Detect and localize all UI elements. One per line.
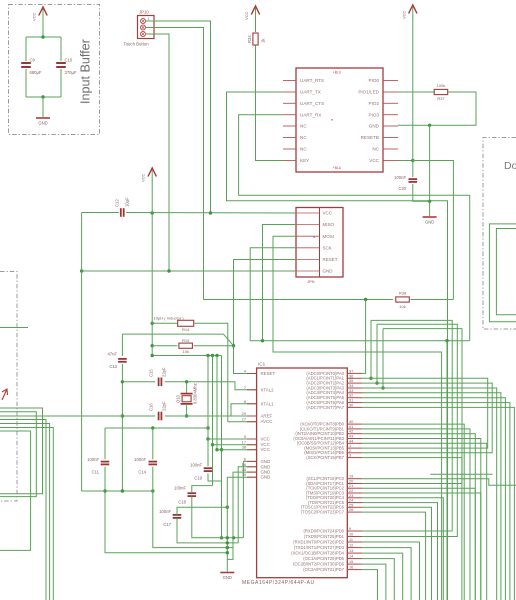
svg-text:(MOSI/PCINT13)PB5: (MOSI/PCINT13)PB5 (304, 445, 344, 450)
pin PIO0 (right stub) (383, 80, 398, 82)
junction GND collector y=542.9 (226, 541, 229, 544)
pin circle JP10-1 (141, 19, 146, 24)
junction VCC row 38 (215, 448, 218, 451)
wire PA7 down right (362, 407, 514, 600)
svg-text:33: 33 (349, 388, 353, 393)
wire PA3 long row down (362, 388, 497, 600)
pin PIO2 (right stub) (383, 102, 398, 104)
svg-text:GND: GND (261, 459, 271, 464)
wire VCC to C20 (412, 161, 414, 177)
svg-text:▾: ▾ (331, 118, 333, 122)
pin UART_CTS (left stub) (283, 102, 296, 104)
junction R15 left / VCC (151, 344, 154, 347)
pin 27 AVCC (IC left) (247, 421, 257, 423)
svg-text:R14: R14 (182, 327, 190, 332)
svg-text:RESET: RESET (261, 371, 276, 376)
wire PC5 down (362, 503, 438, 600)
svg-text:(INT2/AIN0/PCINT10)PB2: (INT2/AIN0/PCINT10)PB2 (295, 431, 344, 436)
svg-text:(OC2B/INT2/PCINT30)PD6: (OC2B/INT2/PCINT30)PD6 (293, 562, 345, 567)
wire GND pin 39 (227, 476, 256, 478)
pin UART_TX (left stub) (283, 91, 296, 93)
junction MISO joins (261, 339, 264, 342)
svg-text:(ADC7/PCINT7)PA7: (ADC7/PCINT7)PA7 (306, 405, 344, 410)
svg-text:3: 3 (349, 453, 351, 458)
wire VCC over to R38 line (413, 161, 454, 300)
resistor R14 10uH inductor (178, 320, 194, 326)
svg-text:(TXD0/PCINT25)PD1: (TXD0/PCINT25)PD1 (304, 534, 345, 539)
wire drop to PA1 (370, 320, 372, 378)
pin SCK (ISP) (296, 247, 320, 249)
pin 6 GND (IC left) (247, 460, 257, 462)
svg-text:VCC: VCC (323, 211, 333, 216)
svg-text:AVCC: AVCC (261, 419, 273, 424)
svg-text:100nF: 100nF (87, 457, 99, 462)
svg-text:(ADC3/PCINT3)PA3: (ADC3/PCINT3)PA3 (306, 385, 344, 390)
wire VCC to R34 (255, 18, 257, 32)
svg-text:Touch Button: Touch Button (124, 42, 150, 47)
wire PC0 jog to right edge (362, 479, 516, 486)
capacitor C14 100nF (149, 461, 158, 463)
svg-text:UART_RX: UART_RX (300, 112, 321, 117)
wire PC4 down (362, 498, 443, 600)
resistor R34 1k (253, 33, 258, 45)
svg-text:(CLKO/T1/PCINT9)PB1: (CLKO/T1/PCINT9)PB1 (300, 426, 345, 431)
svg-text:100k: 100k (437, 83, 446, 88)
pin 21 (TCK/PCINT18)PC2 (IC right) (347, 487, 362, 489)
svg-text:25: 25 (349, 502, 353, 507)
pin 15 (OC2B/INT2/PCINT30)PD6 (IC right) (347, 563, 362, 565)
svg-text:(MISO/PCINT14)PB6: (MISO/PCINT14)PB6 (304, 450, 344, 455)
junction RESET net (232, 344, 235, 347)
svg-text:NC: NC (300, 135, 307, 140)
svg-text:VCC: VCC (244, 11, 249, 20)
svg-text:(TCK/PCINT18)PC2: (TCK/PCINT18)PC2 (306, 486, 344, 491)
pin 8 XTAL1 (IC left) (247, 403, 257, 405)
power symbol VCC above R34 (255, 8, 257, 19)
junction GND pin net (428, 124, 431, 127)
svg-text:8: 8 (244, 399, 246, 404)
svg-text:16: 16 (242, 462, 246, 467)
junction VCC rail / VCC arrow mid (151, 211, 154, 214)
wire VCC arrow mid down (151, 180, 153, 213)
wire drop to PA0 (362, 300, 366, 374)
pin 16 (OC2A/PCINT31)PD7 (IC right) (347, 569, 362, 571)
module U1 bluetooth (UART/PIO box) (296, 68, 383, 172)
pin 32 (ADC5/PCINT5)PA5 (IC right) (347, 397, 362, 399)
svg-text:22: 22 (349, 488, 353, 493)
svg-text:MOSI: MOSI (323, 234, 335, 239)
svg-text:(SCL/PCINT16)PC0: (SCL/PCINT16)PC0 (307, 476, 345, 481)
wire PA5 down right (362, 398, 505, 600)
svg-text:10k: 10k (182, 349, 188, 354)
wire PC7 down (362, 512, 426, 600)
pin 10 (TXD0/PCINT25)PD1 (IC right) (347, 536, 362, 538)
svg-text:(OC0A/AIN1/PCINT11)PB3: (OC0A/AIN1/PCINT11)PB3 (293, 436, 344, 441)
svg-text:(ADC4/PCINT4)PA4: (ADC4/PCINT4)PA4 (306, 390, 344, 395)
svg-text:15: 15 (349, 559, 353, 564)
svg-text:NC: NC (372, 147, 379, 152)
pin 35 (ADC2/PCINT2)PA2 (IC right) (347, 382, 362, 384)
pin 25 (TOSC1/PCINT22)PC6 (IC right) (347, 506, 362, 508)
pin KEY (left stub) (283, 160, 296, 162)
junction GND collector y=537.8 (226, 536, 229, 539)
resistor R37 100k (434, 89, 448, 94)
wire R15 right lead (194, 345, 234, 347)
capacitor C10 370uF (56, 62, 66, 64)
svg-text:13: 13 (349, 548, 353, 553)
svg-text:R15: R15 (182, 338, 190, 343)
svg-text:36: 36 (349, 373, 353, 378)
wire net UART_RX (239, 115, 470, 341)
svg-text:VCC: VCC (141, 173, 146, 182)
pin MISO (ISP) (296, 224, 320, 226)
svg-text:35: 35 (349, 378, 353, 383)
wire cap-top rail (105, 427, 208, 429)
svg-text:(TOSC1/PCINT22)PC6: (TOSC1/PCINT22)PC6 (301, 505, 345, 510)
svg-text:VCC: VCC (261, 447, 270, 452)
svg-text:GND: GND (261, 475, 271, 480)
junction VCC rail / JP10 pin1 (209, 211, 212, 214)
svg-text:31: 31 (349, 398, 353, 403)
svg-text:22pF: 22pF (162, 401, 167, 411)
svg-text:10µH ( Inductor ): 10µH ( Inductor ) (154, 315, 185, 320)
pin 22 (TMS/PCINT19)PC3 (IC right) (347, 492, 362, 494)
junction C20 bottom / GND (428, 200, 431, 203)
junction input buffer bottom (41, 95, 44, 98)
junction GND rail / left GND vertical (80, 269, 83, 272)
pin circle JP10-3 (141, 32, 146, 37)
ground (bottom) (220, 572, 234, 574)
resistor R38 10k (396, 297, 410, 302)
svg-text:43: 43 (349, 434, 353, 439)
wire PB4 down right (362, 443, 487, 600)
pin 12 (TXD1/INT1/PCINT27)PD3 (IC right) (347, 547, 362, 549)
wire PB2 down right (362, 434, 475, 600)
svg-text:▸: ▸ (314, 235, 316, 239)
junction VCC / C20 (411, 159, 414, 162)
wire PIO1 to R37 (398, 91, 434, 93)
junction rail A (232, 536, 235, 539)
junction R14 left / VCC (151, 322, 154, 325)
wire GND collector vertical (226, 477, 228, 571)
wire crystal top lead (186, 382, 188, 393)
wire C9 leads (25, 37, 27, 61)
wire R15 left lead (152, 345, 177, 347)
svg-text:10k: 10k (399, 304, 405, 309)
svg-text:+BLU: +BLU (333, 71, 342, 75)
wire AVCC line from R14 (228, 421, 257, 423)
pin 34 (ADC3/PCINT3)PA3 (IC right) (347, 387, 362, 389)
wire net MISO (ISP) (263, 225, 297, 341)
wire crystal bottom lead (186, 404, 188, 416)
svg-text:19: 19 (349, 474, 353, 479)
wire JP10 pin1 to VCC rail (146, 21, 211, 213)
wire left entry down 3 (0, 428, 53, 600)
svg-text:JPN: JPN (307, 279, 315, 284)
svg-text:GND: GND (425, 220, 434, 225)
svg-text:7: 7 (244, 385, 246, 390)
wire C14 top lead (152, 428, 154, 459)
wire PB3 down right (362, 439, 481, 600)
pin 1 (MOSI/PCINT13)PB5 (IC right) (347, 447, 362, 449)
svg-text:9: 9 (349, 526, 351, 531)
pin GND (ISP) (296, 270, 320, 272)
svg-text:C20: C20 (398, 186, 406, 191)
svg-text:C15: C15 (149, 369, 154, 377)
svg-text:KEY: KEY (300, 158, 309, 163)
svg-text:37: 37 (349, 368, 353, 373)
wire R14 right to AVCC line (194, 323, 228, 421)
wire JP10 pin3 to GND rail (146, 34, 170, 271)
pin 14 (OC1A/PCINT29)PD5 (IC right) (347, 558, 362, 560)
junction PA3 row (381, 386, 384, 389)
svg-text:NC: NC (300, 124, 307, 129)
svg-text:GND: GND (38, 121, 47, 126)
wire bottom rail input buffer (26, 96, 61, 98)
pin PIO1/LED (right stub) (383, 91, 398, 93)
svg-text:PIO1/LED: PIO1/LED (358, 90, 379, 95)
pin 38 VCC (IC left) (247, 449, 257, 451)
wire net VCC rail (ISP VCC / C12 / JP10-1) (126, 212, 296, 215)
wire XTAL2 line with C15 (122, 381, 155, 383)
junction GND rail / JP10 pin3 (167, 269, 170, 272)
pin 24 (TDI/PCINT21)PC5 (IC right) (347, 502, 362, 504)
wire VCC arrow down (412, 17, 414, 161)
svg-text:38: 38 (242, 445, 246, 450)
svg-text:5: 5 (244, 434, 246, 439)
wire JP10 pin2 down to R38 line (146, 28, 204, 300)
svg-text:UART_RTS: UART_RTS (300, 78, 324, 83)
wire VCC distribution rail y=355.5 (152, 355, 221, 357)
pin 43 (OC0A/AIN1/PCINT11)PB3 (IC right) (347, 438, 362, 440)
wire left C-loop 2 (0, 412, 36, 497)
junction PA2 row (375, 381, 378, 384)
svg-text:(ADC0/PCINT0)PA0: (ADC0/PCINT0)PA0 (306, 371, 344, 376)
wire PC3 down (362, 493, 481, 600)
pin 40 (XCK0/T0/PCINT8)PB0 (IC right) (347, 423, 362, 425)
junction crystal bottom (185, 414, 188, 417)
svg-text:100nF: 100nF (174, 486, 186, 491)
pin circle JP10-2 (141, 25, 146, 30)
pin PIO3 (right stub) (383, 114, 398, 116)
pin RESETB (right stub) (383, 137, 398, 139)
junction cap rail end (206, 426, 209, 429)
wire upper link 3 to PC1 (362, 329, 462, 484)
pin 29 AREF (IC left) (247, 415, 257, 417)
wire GND pin 16 (238, 467, 256, 543)
wire C11 top lead (104, 428, 106, 459)
pin 5 VCC (IC left) (247, 438, 257, 440)
pin 26 (TOSC2/PCINT23)PC7 (IC right) (347, 511, 362, 513)
svg-text:42: 42 (349, 429, 353, 434)
pin VCC (right stub) (383, 160, 398, 162)
wire VCC row pin17 (213, 444, 257, 446)
svg-text:370µF: 370µF (65, 70, 77, 75)
pin 3 (SCK/PCINT15)PB7 (IC right) (347, 457, 362, 459)
svg-text:(TXD1/INT1/PCINT27)PD3: (TXD1/INT1/PCINT27)PD3 (294, 545, 345, 550)
capacitor C9 680uF (21, 62, 31, 64)
svg-text:100nF: 100nF (190, 463, 202, 468)
wire C18 top jog (192, 486, 213, 493)
wire C18 bottom to GND rail (192, 496, 244, 537)
wire branch to XTAL1 pin (231, 404, 257, 416)
junction mid net / PB6 drop (445, 339, 448, 342)
wire drop to PA2 (376, 324, 378, 383)
wire upper link 1 to PD0 (362, 320, 452, 531)
junction GND collector y=552.7 (226, 551, 229, 554)
capacitor C11 100nF (101, 461, 110, 463)
svg-text:1: 1 (148, 17, 150, 21)
svg-text:R34: R34 (247, 35, 252, 43)
dashed frame: Input Buffer module (9, 5, 100, 135)
svg-text:UART_TX: UART_TX (300, 90, 321, 95)
svg-text:RESETB: RESETB (361, 135, 379, 140)
svg-text:16: 16 (349, 565, 353, 570)
svg-text:Doc: Doc (504, 160, 516, 172)
wire to GND input buffer (42, 97, 44, 117)
svg-text:100nF: 100nF (159, 509, 171, 514)
junction C14 crossing (151, 489, 154, 492)
svg-text:IC1: IC1 (258, 361, 266, 366)
svg-text:1: 1 (349, 443, 351, 448)
svg-text:(XCK0/T0/PCINT8)PB0: (XCK0/T0/PCINT8)PB0 (300, 422, 344, 427)
pin 39 GND (IC left) (247, 476, 257, 478)
svg-text:GND: GND (223, 575, 232, 580)
pin NC (left stub) (283, 137, 296, 139)
svg-text:NC: NC (300, 147, 307, 152)
svg-text:100nF: 100nF (394, 175, 406, 180)
pin 23 (TDO/PCINT20)PC4 (IC right) (347, 497, 362, 499)
pin 36 (ADC1/PCINT1)PA1 (IC right) (347, 377, 362, 379)
pin 7 XTAL2 (IC left) (247, 389, 257, 391)
svg-text:(ADC6/PCINT6)PA6: (ADC6/PCINT6)PA6 (306, 400, 344, 405)
wire left entry down 1 (0, 420, 46, 600)
svg-text:XTAL2: XTAL2 (261, 387, 275, 392)
wire VCC drop 3 down (216, 356, 218, 450)
wire GND pin 28 (227, 472, 256, 559)
wire net SCK / mid horizontal (250, 248, 470, 341)
svg-text:VCC: VCC (401, 10, 406, 19)
svg-text:(TDO/PCINT20)PC4: (TDO/PCINT20)PC4 (306, 495, 345, 500)
wire PC2 down (362, 488, 475, 600)
svg-text:C13: C13 (109, 364, 117, 369)
wire R14 left lead (152, 322, 177, 324)
pin 9 (RXD0/PCINT24)PD0 (IC right) (347, 530, 362, 532)
wire C10 leads (60, 37, 62, 61)
pin 28 GND (IC left) (247, 471, 257, 473)
wire C12 left lead (82, 212, 119, 214)
wire right edge U loop inner (496, 229, 516, 315)
pin 41 (CLKO/T1/PCINT9)PB1 (IC right) (347, 428, 362, 430)
wire diagonal reset branch (223, 334, 233, 346)
pin 17 VCC (IC left) (247, 444, 257, 446)
wire C14 bottom to GND rail (153, 467, 233, 548)
wire net RESET (ISP) (234, 260, 297, 346)
svg-text:PIO2: PIO2 (369, 101, 380, 106)
svg-text:100nF: 100nF (134, 457, 146, 462)
svg-text:(TOSC2/PCINT23)PC7: (TOSC2/PCINT23)PC7 (301, 510, 345, 515)
wire C17 top jog (177, 507, 227, 515)
svg-text:(ADC1/PCINT1)PA1: (ADC1/PCINT1)PA1 (306, 376, 344, 381)
pin UART_RX (left stub) (283, 114, 296, 116)
wire PA6 down right (362, 403, 510, 600)
ground (input buffer) (36, 117, 50, 119)
pin 44 (OC0B/SS/PCINT12)PB4 (IC right) (347, 442, 362, 444)
pin MOSI (ISP) (296, 235, 320, 237)
capacitor C20 100nF (409, 178, 418, 180)
svg-text:GND: GND (261, 464, 271, 469)
pin NC (right stub) (383, 148, 398, 150)
wire VCC vertical mid (151, 213, 153, 356)
pin 13 (XCK1/OC1B/PCINT28)PD4 (IC right) (347, 552, 362, 554)
wire touch line east of R38 (411, 299, 454, 301)
svg-text:PIO3: PIO3 (369, 112, 380, 117)
junction GND rail / cap link (121, 489, 124, 492)
svg-text:(XCK1/OC1B/PCINT28)PD4: (XCK1/OC1B/PCINT28)PD4 (291, 551, 344, 556)
junction XTAL2 line / GND cap rail (121, 380, 124, 383)
svg-text:SCK: SCK (323, 245, 332, 250)
svg-text:(TDI/PCINT21)PC5: (TDI/PCINT21)PC5 (308, 500, 345, 505)
svg-text:VCC: VCC (32, 12, 37, 21)
svg-text:32: 32 (349, 393, 353, 398)
wire RESET net to IC pin 4 (234, 346, 257, 374)
wire PB0 down right (362, 424, 464, 600)
svg-text:(SCK/PCINT15)PB7: (SCK/PCINT15)PB7 (306, 455, 344, 460)
capacitor C18 100nF (188, 492, 197, 494)
wire net MOSI down bundle (273, 236, 442, 600)
connector JP10 (138, 16, 155, 39)
svg-text:21: 21 (349, 483, 353, 488)
wire VCC drop to C19 top (207, 356, 209, 467)
wire GND rail crystal area (121, 364, 123, 491)
svg-text:+BLU: +BLU (333, 166, 342, 170)
svg-text:(OC2A/PCINT31)PD7: (OC2A/PCINT31)PD7 (303, 567, 344, 572)
wire VCC row pin38 (217, 449, 257, 451)
wire XTAL1 / AREF line with C16 (0, 415, 155, 417)
IC U2 MEGA164P main box (257, 368, 348, 578)
wire bridge between bundles (430, 473, 492, 475)
wire net GND rail (ISP GND) (82, 270, 296, 272)
junction input buffer top (41, 35, 44, 38)
svg-text:(RXD1/INT0/PCINT26)PD2: (RXD1/INT0/PCINT26)PD2 (293, 539, 344, 544)
wire top rail input buffer (26, 36, 61, 38)
junction VCC drop 2 (211, 354, 214, 357)
wire PD4 down (362, 553, 403, 600)
wire left C-loop 1 (0, 408, 43, 494)
wire C11 bottom to GND rail (105, 467, 227, 553)
wire VCC arrow to cap rail (42, 19, 44, 37)
wire C20 bottom to GND net (413, 184, 430, 201)
wire C13 top / reset branch (122, 333, 223, 335)
capacitor C13 47nF (118, 358, 127, 360)
junction GND collector y=547.6 (226, 546, 229, 549)
ground (near C20) (423, 216, 437, 218)
svg-text:(OC1A/PCINT29)PD5: (OC1A/PCINT29)PD5 (303, 556, 344, 561)
wire net UART_TX (227, 92, 448, 600)
pin 33 (ADC4/PCINT4)PA4 (IC right) (347, 392, 362, 394)
svg-text:C16: C16 (149, 403, 154, 411)
svg-text:C17: C17 (163, 522, 171, 527)
svg-text:C9: C9 (30, 58, 36, 63)
svg-text:MEGA164P/324P/644P-AU: MEGA164P/324P/644P-AU (242, 580, 315, 586)
svg-text:PIO0: PIO0 (369, 78, 380, 83)
svg-text:JP10: JP10 (139, 10, 149, 15)
svg-text:GND: GND (323, 269, 334, 274)
wire GND net down (429, 125, 431, 201)
wire drop to PA3 (382, 329, 384, 388)
wire upper link 2 to PD1 (362, 324, 457, 536)
pin 42 (INT2/AIN0/PCINT10)PB2 (IC right) (347, 433, 362, 435)
